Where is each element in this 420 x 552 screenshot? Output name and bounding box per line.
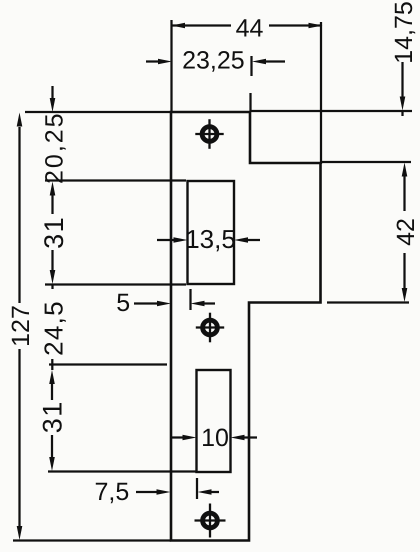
chain arrow down to slot1 bottom	[50, 270, 56, 284]
dim 127 vertical x=19.5	[18, 127, 20, 303]
chain arrow up to slot1 top	[50, 182, 56, 196]
svg-text:7,5: 7,5	[95, 478, 130, 506]
5 right arrow	[191, 301, 205, 307]
slot 10x31	[197, 370, 231, 472]
44 left arrow	[172, 23, 186, 28]
svg-text:5: 5	[116, 289, 130, 317]
dim 13.5 shafts	[157, 239, 176, 241]
13.5 right arrow	[234, 237, 248, 243]
svg-text:44: 44	[236, 15, 264, 43]
hole middle	[196, 313, 224, 343]
extension line 5 right	[189, 289, 191, 310]
extension line lip top right (for 42)	[322, 161, 411, 163]
extension line left edge up (for 44 / 23.25)	[170, 20, 172, 112]
extension line bottom (left of plate)	[13, 539, 171, 541]
svg-text:31: 31	[39, 216, 69, 249]
svg-text:31: 31	[38, 400, 68, 433]
svg-text:20,25: 20,25	[41, 111, 69, 184]
extension line slot1 bottom	[45, 283, 186, 285]
5 left arrow	[157, 301, 171, 307]
7.5 right arrow	[198, 489, 212, 495]
42 down arrow	[402, 288, 408, 302]
extension line 23.25 right	[250, 56, 252, 76]
svg-text:13,5: 13,5	[185, 224, 236, 254]
extension line top (left of plate)	[25, 111, 171, 113]
10 right arrow	[231, 435, 245, 441]
extension line slot2 top	[49, 363, 167, 365]
14.75 down arrow	[400, 97, 406, 111]
extension line slot1 top	[45, 179, 186, 181]
dim 10 shafts	[172, 436, 184, 438]
127 top arrow	[17, 113, 23, 127]
chain dim vertical x=52.5	[51, 86, 53, 98]
dim 14.75 vertical	[401, 62, 403, 97]
44 right arrow	[309, 23, 323, 29]
7.5 left arrow	[157, 489, 171, 495]
svg-text:42: 42	[392, 218, 420, 246]
10 left arrow	[183, 435, 197, 441]
plate outline	[171, 112, 321, 541]
hole bottom	[195, 504, 226, 538]
23.25 left arrow	[158, 59, 172, 65]
chain arrow down to slot2 bottom	[49, 457, 55, 471]
13.5 left arrow	[174, 237, 188, 243]
svg-text:10: 10	[201, 424, 229, 452]
svg-text:24,5: 24,5	[39, 300, 69, 356]
dim 7.5 shafts	[136, 491, 158, 493]
extension line top (right of plate, for 14.75)	[250, 110, 412, 112]
svg-text:23,25: 23,25	[182, 47, 245, 75]
extension line lip bottom right (for 42)	[327, 301, 409, 303]
svg-text:127: 127	[7, 305, 35, 347]
chain arrow down to top line	[50, 98, 56, 112]
extension line slot2 bottom	[48, 470, 196, 472]
dim 23.25 shafts	[146, 60, 161, 62]
dim 44 line	[172, 24, 231, 26]
slot 13.5x31	[188, 181, 235, 284]
42 up arrow	[402, 163, 408, 177]
dim 42 vertical	[403, 176, 405, 211]
svg-text:14,75: 14,75	[390, 1, 418, 64]
127 bottom arrow	[17, 526, 23, 540]
23.25 right arrow	[252, 59, 266, 65]
chain arrow up below slot2 top ext	[49, 370, 55, 384]
dim 5 shafts	[134, 302, 159, 304]
extension line 44 right	[320, 22, 322, 164]
extension line 7.5 right	[196, 478, 198, 499]
hole top	[195, 119, 223, 149]
